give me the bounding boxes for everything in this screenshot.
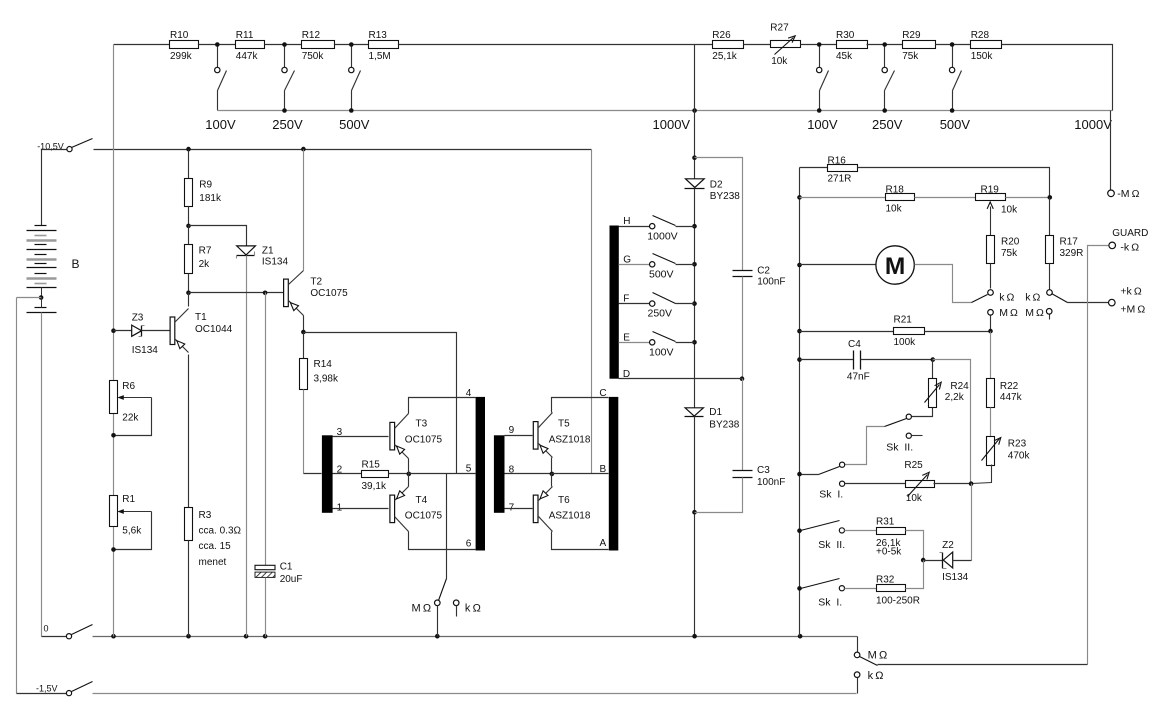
svg-text:R15: R15 <box>362 459 381 470</box>
wire winding tap F <box>619 303 650 305</box>
node R21 row on rail <box>797 329 802 334</box>
wire R22 top <box>990 332 992 379</box>
svg-text:45k: 45k <box>836 51 853 62</box>
node 500V right on bus <box>950 108 955 113</box>
svg-text:cca. 0.3Ω: cca. 0.3Ω <box>199 525 242 536</box>
label M-ohm right set <box>1025 307 1044 319</box>
svg-text:BY238: BY238 <box>709 420 739 431</box>
wire 1000V node to R26 <box>695 44 713 46</box>
resistor R18 <box>886 185 915 215</box>
battery last cell <box>27 298 57 313</box>
node T1 collector / T2 base row <box>186 291 191 296</box>
svg-text:T1: T1 <box>195 312 207 323</box>
wire T4 collector to pin6 <box>409 532 476 550</box>
diode D2 <box>685 179 741 202</box>
switch G contact <box>650 262 655 267</box>
wire emitter junction to B <box>552 473 609 475</box>
svg-text:R20: R20 <box>1001 236 1020 247</box>
node filter loop bottom <box>692 510 697 515</box>
svg-text:T4: T4 <box>416 495 428 506</box>
switch Sk II lower contact <box>839 528 844 533</box>
node C1 branch <box>263 291 268 296</box>
trimmer R27 <box>770 22 800 67</box>
wire R6 wiper loop <box>114 398 152 436</box>
svg-text:2,2k: 2,2k <box>945 392 965 403</box>
wire C4 left <box>800 359 854 361</box>
svg-text:10k: 10k <box>906 493 923 504</box>
node R9/R7/Z1 <box>186 224 191 229</box>
node R21/R22 <box>988 329 993 334</box>
svg-text:R32: R32 <box>876 575 895 586</box>
svg-text:10k: 10k <box>771 56 788 67</box>
svg-text:R6: R6 <box>122 381 135 392</box>
switch 500V (left bank) stub <box>351 47 353 68</box>
svg-text:R13: R13 <box>369 30 388 41</box>
node T2 emitter / R14 <box>301 330 306 335</box>
svg-text:250V: 250V <box>272 117 303 132</box>
node battery tap <box>39 295 44 300</box>
wire R31 to Z2 node <box>906 531 924 561</box>
zener Z3 <box>132 313 159 356</box>
label 1000V (right) <box>1074 117 1112 132</box>
label k-ohm (range) <box>465 603 481 615</box>
wire T1 collector <box>188 293 190 307</box>
node R12/R13 junction <box>349 42 354 47</box>
svg-text:R26: R26 <box>712 30 731 41</box>
switch 100V (left bank) contact <box>215 67 220 72</box>
wire pin 3 <box>333 436 389 438</box>
svg-text:1000V: 1000V <box>1074 117 1112 132</box>
node 0-bus at x=245.6 <box>244 634 249 639</box>
capacitor C1 <box>255 562 302 586</box>
switch 250V (right bank) stub <box>884 47 886 68</box>
wire winding tap H <box>619 226 650 228</box>
node R6 wiper on rail <box>111 433 116 438</box>
node C4 row on rail <box>797 357 802 362</box>
switch range blade <box>439 579 447 601</box>
svg-text:-1,5V: -1,5V <box>36 684 58 694</box>
wire T2 emitter row to pin5 drop <box>304 333 457 474</box>
transformer core bar (pins 3-2-1) <box>322 435 333 513</box>
wire Z1 cathode down <box>246 256 248 637</box>
svg-text:E: E <box>623 332 630 343</box>
wire 500V right switch to bus <box>952 91 954 111</box>
wire pin 1 <box>333 508 389 510</box>
label Sk I (lower) <box>818 596 842 608</box>
label -10,5V <box>37 142 64 152</box>
resistor R22 <box>987 379 1023 408</box>
label Sk II (upper) <box>886 441 913 453</box>
wire R10 to R11 <box>199 44 236 46</box>
svg-text:470k: 470k <box>1008 451 1031 462</box>
node 250V on bus <box>282 108 287 113</box>
switch H contact <box>650 224 655 229</box>
label B winding <box>600 464 607 475</box>
wire R23 bottom elbow <box>972 465 992 484</box>
switch output M-ohm contact <box>854 652 860 658</box>
svg-text:R12: R12 <box>302 30 321 41</box>
switch Sk II lower blade <box>801 521 840 531</box>
R1 wiper arrow <box>117 509 151 514</box>
node 100V right on bus <box>817 108 822 113</box>
svg-text:D1: D1 <box>709 407 722 418</box>
node D row / cap column <box>740 376 745 381</box>
svg-text:M Ω: M Ω <box>868 650 888 662</box>
resistor R28 <box>971 30 1002 62</box>
resistor R9 <box>185 179 222 207</box>
wire R18 to R19 <box>915 197 976 199</box>
wire rail to R9 <box>188 150 190 179</box>
wire R12 to R13 <box>335 44 369 46</box>
node 0-bus at x=113 <box>111 634 116 639</box>
transformer core bar (pins 9-8-7) <box>494 435 505 513</box>
label 0 <box>44 624 49 634</box>
wire R19 to right column <box>1006 197 1050 199</box>
label k-ohm left set <box>999 292 1014 304</box>
svg-text:M: M <box>885 253 905 280</box>
transistor T5 <box>533 413 591 458</box>
resistor R10 <box>170 30 199 62</box>
switch -1,5V contact <box>66 691 71 696</box>
wire G to HV column <box>676 264 695 266</box>
wire rail to Z3 <box>114 330 132 332</box>
wire range switch feed <box>446 474 448 579</box>
battery B cells <box>27 226 57 288</box>
switch range M-ohm contact <box>435 600 441 606</box>
switch 100V (left bank) blade <box>218 71 227 91</box>
switch meter blade 2 <box>1052 294 1068 303</box>
wire M-ohm left to R21 node <box>990 316 992 332</box>
svg-text:B: B <box>600 464 607 475</box>
wire node to Z1 branch <box>189 226 247 246</box>
svg-text:9: 9 <box>509 425 515 436</box>
node 1000V column on bus <box>692 108 697 113</box>
label 4 <box>466 388 472 399</box>
switch Sk II lower contact <box>906 433 922 438</box>
label 1000V (left) <box>653 117 691 132</box>
wire meter to selector <box>915 265 972 303</box>
svg-text:M Ω: M Ω <box>999 307 1018 319</box>
resistor R30 <box>836 30 868 62</box>
potentiometer R1 <box>110 494 143 537</box>
node meter row on rail <box>797 263 802 268</box>
wire T5 emitter <box>551 458 553 474</box>
node R27/R30 junction <box>817 42 822 47</box>
svg-text:R25: R25 <box>904 460 923 471</box>
svg-text:OC1075: OC1075 <box>310 288 348 299</box>
svg-text:22k: 22k <box>122 413 139 424</box>
node H contact <box>692 224 697 229</box>
svg-text:R28: R28 <box>971 30 990 41</box>
svg-text:+0-5k: +0-5k <box>876 546 902 557</box>
wire R16 to right column <box>858 168 1050 198</box>
svg-text:329R: 329R <box>1060 248 1084 259</box>
label G <box>623 254 631 265</box>
wire -1,5V stub <box>17 693 67 695</box>
wire k-ohm to -1,5V bus <box>857 678 859 694</box>
svg-text:250V: 250V <box>872 117 903 132</box>
label B <box>72 257 80 271</box>
node 0-bus at x=436.8 <box>435 634 440 639</box>
svg-text:7: 7 <box>509 502 515 513</box>
node T3/T4 emitter junction <box>407 472 412 477</box>
svg-text:R30: R30 <box>836 30 855 41</box>
label 250V tap <box>648 308 673 320</box>
switch Sk I upper contact <box>840 462 845 467</box>
label Sk II (lower) <box>818 539 845 551</box>
wire M-ohm contact to bus <box>437 606 439 637</box>
wire R25 right <box>934 483 972 485</box>
label 500V <box>339 117 370 132</box>
switch Sk II upper contact <box>906 414 911 419</box>
node 0-bus at x=694.1 <box>692 634 697 639</box>
wire C4 row to drop <box>933 360 971 484</box>
R19 wiper arrow <box>987 202 993 236</box>
label 2 <box>337 465 343 476</box>
wire Sk I to rail <box>800 474 819 476</box>
node R9 top <box>186 147 191 152</box>
switch 100V (left bank) stub <box>217 47 219 68</box>
label D <box>623 369 630 380</box>
svg-text:5: 5 <box>466 464 472 475</box>
wire D row <box>619 378 743 380</box>
switch -10,5V contact <box>67 147 72 152</box>
svg-text:500V: 500V <box>339 117 370 132</box>
wire k-ohm stub <box>456 606 458 617</box>
svg-text:R16: R16 <box>828 156 847 167</box>
wire R9 to node <box>188 207 190 226</box>
wire to R31 <box>845 530 877 532</box>
svg-text:100V: 100V <box>205 117 236 132</box>
label M-ohm (range) <box>412 603 432 615</box>
capacitor C4 <box>847 339 870 383</box>
svg-text:+k Ω: +k Ω <box>1120 285 1141 297</box>
switch output k-ohm contact <box>854 672 860 678</box>
transistor T6 <box>533 487 591 532</box>
svg-text:10k: 10k <box>1001 205 1018 216</box>
wire F to HV column <box>676 303 695 305</box>
wire T3 collector to pin4 <box>409 398 476 414</box>
label 6 <box>466 538 472 549</box>
transformer core bar (pins 4-5-6) <box>476 397 485 551</box>
switch F contact <box>650 301 655 306</box>
node R19 right column <box>1048 195 1053 200</box>
potentiometer R19 <box>976 185 1019 216</box>
svg-text:10k: 10k <box>886 203 903 214</box>
meter M <box>876 246 914 284</box>
wire pin 9 <box>505 435 533 437</box>
node R1 wiper on rail <box>111 547 116 552</box>
wire C4 to R24 node <box>861 359 933 361</box>
switch M-ohm contact (left set) <box>988 310 994 316</box>
node 0-bus at x=188 <box>186 634 191 639</box>
svg-text:ASZ1018: ASZ1018 <box>549 511 591 522</box>
resistor R15 <box>362 459 389 491</box>
svg-text:100nF: 100nF <box>757 277 785 288</box>
svg-text:D2: D2 <box>710 180 723 191</box>
wire winding tap G <box>619 264 650 266</box>
svg-text:OC1075: OC1075 <box>405 511 443 522</box>
label H <box>623 216 630 227</box>
wire -1,5V bus <box>93 693 857 695</box>
switch 250V (left bank) stub <box>284 47 286 68</box>
wire T2 emitter <box>303 316 305 333</box>
wire Z3 to T1 base <box>142 330 171 332</box>
svg-text:R21: R21 <box>894 315 913 326</box>
wire T2 base row <box>189 292 284 294</box>
resistor R12 <box>302 30 335 62</box>
wire R32 to Z2 node <box>906 561 924 589</box>
svg-text:BY238: BY238 <box>710 191 740 202</box>
label 100V tap <box>649 346 674 358</box>
wire 250V switch to bus <box>284 91 286 111</box>
svg-text:-M Ω: -M Ω <box>1117 188 1139 200</box>
svg-text:R1: R1 <box>122 494 135 505</box>
label 1000V tap <box>647 230 677 242</box>
svg-text:R17: R17 <box>1060 236 1079 247</box>
wire R21 row left <box>800 331 894 333</box>
label E <box>623 332 630 343</box>
svg-text:R27: R27 <box>770 22 789 33</box>
svg-text:250V: 250V <box>648 308 673 320</box>
label output k-ohm <box>868 670 884 682</box>
wire T3 emitter <box>408 459 410 474</box>
wire 0 bus <box>93 636 858 638</box>
wire R26 to R27 <box>744 44 771 46</box>
node Sk I lower on rail <box>797 586 802 591</box>
wire T1 emitter to R3 <box>188 355 190 508</box>
potentiometer R6 <box>110 381 140 424</box>
wire T6 emitter <box>551 474 553 487</box>
switch 500V (left bank) blade <box>352 71 361 91</box>
svg-text:C3: C3 <box>757 465 770 476</box>
svg-text:OC1075: OC1075 <box>405 435 443 446</box>
terminal +k-ohm/+M-ohm <box>1109 285 1146 315</box>
svg-text:R14: R14 <box>314 359 333 370</box>
svg-text:1: 1 <box>337 502 343 513</box>
resistor R21 <box>894 315 925 349</box>
wire pin 8 <box>505 473 552 475</box>
node G contact <box>692 262 697 267</box>
label k-ohm right set <box>1025 292 1040 304</box>
svg-text:750k: 750k <box>302 51 325 62</box>
svg-text:k Ω: k Ω <box>999 292 1014 304</box>
label Sk I (upper) <box>819 489 843 501</box>
label GUARD <box>1112 228 1148 239</box>
transistor T2 <box>284 271 348 316</box>
svg-text:OC1044: OC1044 <box>195 324 233 335</box>
switch H blade <box>653 216 676 226</box>
label 500V tap <box>649 268 674 280</box>
svg-text:C: C <box>599 388 606 399</box>
label 500V right <box>940 117 971 132</box>
svg-text:C1: C1 <box>280 562 293 573</box>
node R11/R12 junction <box>282 42 287 47</box>
svg-text:Sk II.: Sk II. <box>886 441 913 453</box>
wire R16 row <box>800 167 828 169</box>
node 250V right on bus <box>882 108 887 113</box>
svg-text:+M Ω: +M Ω <box>1120 303 1145 315</box>
svg-text:0: 0 <box>44 624 49 634</box>
node 0-bus at x=264.6 <box>263 634 268 639</box>
svg-text:Sk II.: Sk II. <box>818 539 845 551</box>
wire T2 collector <box>303 150 305 271</box>
label C <box>599 388 606 399</box>
svg-text:k Ω: k Ω <box>465 603 481 615</box>
wire R30 to R29 <box>867 44 903 46</box>
svg-text:R29: R29 <box>902 30 921 41</box>
resistor R29 <box>902 30 935 62</box>
wire battery top lead <box>41 150 43 226</box>
capacitor C3 <box>733 465 786 488</box>
resistor R20 <box>987 236 1020 264</box>
label 3 <box>337 427 343 438</box>
resistor R14 <box>300 359 339 390</box>
wire 500V switch to bus <box>351 91 353 111</box>
label 1 <box>337 502 343 513</box>
svg-text:-k Ω: -k Ω <box>1120 242 1139 254</box>
wire battery tap <box>41 288 43 298</box>
wire D1 to bottom bus <box>694 417 696 637</box>
capacitor C2 <box>733 266 786 288</box>
svg-text:5,6k: 5,6k <box>122 526 142 537</box>
svg-text:Z2: Z2 <box>942 540 954 551</box>
wire R29 to R28 <box>936 44 971 46</box>
wire R17 to k-ohm contact <box>1049 264 1051 290</box>
wire pin 7 <box>505 508 533 510</box>
switch R25 contact <box>840 481 845 486</box>
svg-text:H: H <box>623 216 630 227</box>
svg-text:R7: R7 <box>199 245 212 256</box>
switch 250V (left bank) contact <box>282 67 287 72</box>
wire bus to M-ohm output <box>857 637 859 653</box>
label 100V right <box>807 117 838 132</box>
resistor R7 <box>185 245 212 274</box>
svg-text:R23: R23 <box>1008 438 1027 449</box>
svg-text:4: 4 <box>466 388 472 399</box>
svg-text:20uF: 20uF <box>280 574 303 585</box>
transistor T3 <box>390 414 443 459</box>
wire 0 stub <box>42 636 67 638</box>
node E contact <box>692 340 697 345</box>
svg-text:ASZ1018: ASZ1018 <box>549 435 591 446</box>
node Z2 anode <box>921 558 926 563</box>
terminal -M-ohm <box>1108 188 1140 200</box>
wire winding tap E <box>619 342 650 344</box>
node F contact <box>692 301 697 306</box>
switch 500V (left bank) contact <box>349 67 354 72</box>
wire R7 top <box>188 226 190 245</box>
wire pin 2 to R15 <box>333 473 362 475</box>
svg-text:447k: 447k <box>1000 392 1023 403</box>
resistor R11 <box>236 30 265 62</box>
svg-text:1000V: 1000V <box>653 117 691 132</box>
wire left outer rail <box>16 298 18 694</box>
resistor R26 <box>712 30 743 62</box>
wire R24 bottom to Sk contact <box>912 408 933 417</box>
label 250V right <box>872 117 903 132</box>
label M-ohm left set <box>999 307 1018 319</box>
wire R14 top <box>303 333 305 359</box>
switch 0 blade <box>72 625 93 635</box>
wire right column to R17 <box>1049 198 1051 236</box>
svg-text:Sk I.: Sk I. <box>818 596 842 608</box>
node R18 row on rail <box>797 195 802 200</box>
node R30/R29 junction <box>882 42 887 47</box>
switch F blade <box>653 293 676 304</box>
svg-text:C4: C4 <box>848 339 861 350</box>
resistor R16 <box>828 156 858 185</box>
